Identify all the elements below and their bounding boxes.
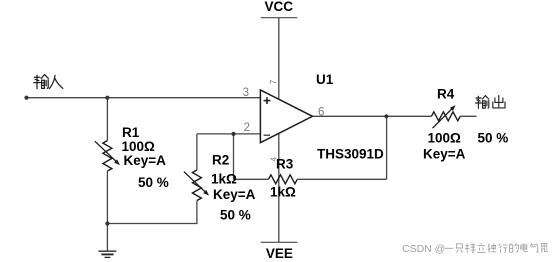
svg-text:U1: U1 bbox=[316, 72, 334, 87]
svg-text:50 %: 50 % bbox=[138, 175, 169, 190]
svg-text:R4: R4 bbox=[437, 87, 455, 102]
svg-text:R1: R1 bbox=[122, 125, 140, 140]
svg-text:2: 2 bbox=[244, 122, 250, 134]
svg-text:3: 3 bbox=[243, 87, 249, 99]
svg-text:Key=A: Key=A bbox=[423, 147, 466, 162]
svg-text:Key=A: Key=A bbox=[124, 153, 167, 168]
svg-text:50 %: 50 % bbox=[478, 131, 509, 146]
svg-text:Key=A: Key=A bbox=[213, 187, 256, 202]
svg-text:100Ω: 100Ω bbox=[122, 139, 156, 154]
svg-text:R3: R3 bbox=[276, 157, 294, 172]
svg-text:VCC: VCC bbox=[265, 0, 294, 14]
svg-text:1kΩ: 1kΩ bbox=[270, 185, 296, 200]
svg-text:6: 6 bbox=[318, 107, 324, 119]
svg-text:7: 7 bbox=[268, 79, 278, 84]
svg-text:VEE: VEE bbox=[266, 246, 293, 261]
svg-text:100Ω: 100Ω bbox=[428, 131, 462, 146]
svg-text:CSDN @: CSDN @ bbox=[402, 243, 445, 255]
svg-text:50 %: 50 % bbox=[220, 207, 251, 222]
svg-text:THS3091D: THS3091D bbox=[317, 147, 384, 162]
svg-text:4: 4 bbox=[269, 157, 279, 162]
svg-text:1kΩ: 1kΩ bbox=[211, 172, 237, 187]
svg-text:R2: R2 bbox=[212, 153, 229, 168]
